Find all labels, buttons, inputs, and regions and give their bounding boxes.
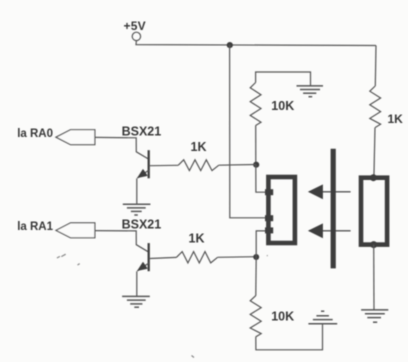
light arrow (upper)	[308, 184, 351, 199]
node junction (Q1 output / 10K / pin1)	[253, 162, 259, 168]
resistor 10K (top vertical)	[250, 83, 261, 126]
resistor 1K (right vertical)	[370, 86, 381, 128]
svg-text:BSX21: BSX21	[122, 124, 162, 138]
svg-text:1K: 1K	[388, 112, 404, 126]
wire right drop to R1K	[374, 46, 377, 87]
wire R2 to node	[219, 164, 256, 167]
svg-text:10K: 10K	[271, 309, 294, 323]
wire RA0 to Q1	[95, 137, 136, 152]
terminal +5V (open circle)	[132, 32, 140, 40]
svg-text:la RA1: la RA1	[17, 221, 53, 233]
ground (below LED box)	[361, 310, 388, 322]
pin 2 (detector middle)	[265, 215, 273, 221]
shutter vane bar	[331, 149, 336, 269]
wire +5V bus down to middle pin	[230, 45, 266, 218]
wire R4 to node	[218, 256, 257, 259]
svg-text:la RA0: la RA0	[17, 128, 53, 140]
wire R1K to LED box top	[374, 128, 375, 178]
wire 10K bottom to node	[255, 126, 257, 165]
svg-text:1K: 1K	[189, 231, 205, 245]
connector RA0 (pointer)	[56, 130, 95, 145]
transistor Q1	[136, 150, 148, 178]
pin 3 (detector bottom)	[265, 227, 273, 233]
light arrow (lower)	[308, 223, 351, 238]
wire Q2 to R4	[150, 257, 177, 258]
wire Q1 emitter to ground	[136, 178, 138, 204]
wire Q2 emitter to ground	[136, 271, 138, 296]
node junction on +5V rail	[227, 42, 233, 48]
node LED top terminal	[370, 174, 377, 181]
opto detector box U1	[268, 177, 295, 243]
node LED bottom terminal	[370, 241, 377, 248]
node junction (Q2 output / 10K / pin3)	[253, 254, 259, 260]
ground (bottom, inverted)	[308, 311, 337, 324]
ground (Q1 emitter)	[123, 204, 151, 215]
wire +5V rail	[136, 41, 376, 46]
transistor Q2	[136, 243, 148, 271]
LED emitter box U2	[361, 178, 387, 245]
svg-text:+5V: +5V	[124, 19, 146, 33]
wire LED bottom to ground	[373, 245, 375, 310]
connector RA1 (pointer)	[56, 223, 95, 238]
resistor 10K (bottom vertical)	[250, 296, 261, 337]
resistor 1K (Q2, horizontal)	[177, 252, 218, 263]
wire 10K top loop to ground	[256, 72, 311, 86]
wire node down to 10K bottom	[255, 257, 257, 296]
svg-text:BSX21: BSX21	[122, 217, 162, 231]
svg-text:10K: 10K	[271, 99, 294, 113]
wire Q1 to R2	[150, 164, 178, 166]
svg-text:1K: 1K	[191, 140, 207, 154]
wire node down to pin 1	[256, 165, 266, 193]
ground (Q2 emitter)	[122, 296, 150, 307]
pin 1 (detector top)	[265, 189, 273, 195]
wire RA1 to Q2	[95, 231, 136, 246]
wire 10K bottom to inverted ground	[256, 324, 323, 350]
wire node up to pin 3	[256, 231, 265, 257]
ground (top, near 10K)	[297, 86, 324, 97]
resistor 1K (Q1, horizontal)	[178, 160, 219, 171]
